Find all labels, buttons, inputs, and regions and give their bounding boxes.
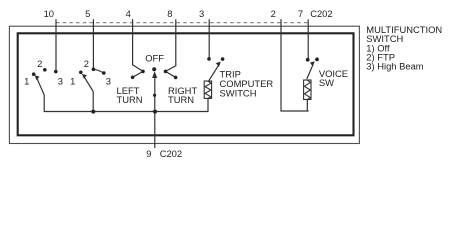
svg-text:4: 4 — [126, 8, 131, 19]
svg-text:2: 2 — [84, 58, 89, 69]
svg-text:3: 3 — [58, 75, 63, 86]
svg-text:2: 2 — [37, 58, 42, 69]
svg-text:7: 7 — [298, 8, 303, 19]
svg-text:8: 8 — [167, 8, 172, 19]
svg-text:C202: C202 — [310, 8, 332, 19]
svg-text:1: 1 — [24, 76, 29, 87]
svg-text:SW: SW — [319, 77, 334, 88]
svg-text:10: 10 — [44, 8, 54, 19]
svg-text:1: 1 — [70, 76, 75, 87]
svg-text:3: 3 — [199, 8, 204, 19]
svg-text:9: 9 — [146, 148, 151, 159]
svg-text:5: 5 — [85, 8, 90, 19]
svg-text:OFF: OFF — [145, 53, 164, 64]
svg-text:2: 2 — [271, 8, 276, 19]
svg-text:3: 3 — [106, 75, 111, 86]
svg-text:TURN: TURN — [117, 94, 143, 105]
svg-text:TURN: TURN — [168, 94, 194, 105]
svg-text:C202: C202 — [160, 148, 182, 159]
svg-text:3) High Beam: 3) High Beam — [366, 61, 424, 72]
svg-text:SWITCH: SWITCH — [220, 87, 257, 98]
